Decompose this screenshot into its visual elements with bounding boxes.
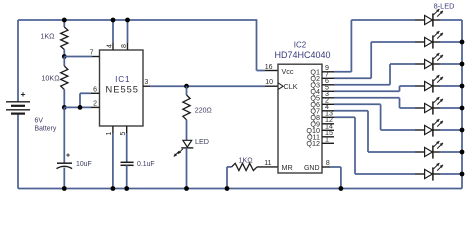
svg-text:Battery: Battery — [35, 126, 57, 133]
svg-text:IC2: IC2 — [294, 41, 307, 50]
svg-text:1: 1 — [325, 136, 329, 144]
svg-text:3: 3 — [144, 79, 148, 86]
svg-text:7: 7 — [90, 50, 94, 57]
svg-text:HD74HC4040: HD74HC4040 — [274, 50, 330, 60]
svg-text:GND: GND — [304, 165, 320, 172]
svg-text:MR: MR — [282, 163, 293, 172]
svg-text:+: + — [66, 153, 70, 160]
svg-text:1KΩ: 1KΩ — [40, 32, 55, 41]
svg-text:IC1: IC1 — [115, 75, 130, 84]
svg-text:8-LED: 8-LED — [434, 1, 455, 10]
svg-text:10: 10 — [265, 79, 273, 86]
svg-text:Vcc: Vcc — [282, 67, 294, 76]
svg-text:6: 6 — [93, 87, 97, 94]
svg-text:1KΩ: 1KΩ — [239, 155, 254, 164]
svg-text:+: + — [21, 89, 26, 99]
svg-text:16: 16 — [265, 64, 273, 71]
svg-text:220Ω: 220Ω — [195, 108, 212, 115]
svg-text:CLK: CLK — [284, 82, 298, 91]
svg-text:5: 5 — [120, 132, 127, 136]
svg-text:0.1uF: 0.1uF — [137, 161, 155, 168]
svg-text:1: 1 — [106, 132, 113, 136]
svg-text:LED: LED — [195, 137, 209, 146]
svg-text:10uF: 10uF — [76, 161, 92, 168]
svg-text:10KΩ: 10KΩ — [41, 74, 60, 83]
svg-text:NE555: NE555 — [106, 84, 139, 94]
svg-text:Q12: Q12 — [306, 139, 320, 148]
svg-text:6V: 6V — [35, 118, 44, 125]
svg-text:4: 4 — [107, 44, 114, 48]
svg-text:2: 2 — [93, 101, 97, 108]
svg-text:11: 11 — [264, 160, 271, 167]
svg-text:8: 8 — [326, 160, 330, 167]
svg-text:8: 8 — [121, 44, 128, 48]
